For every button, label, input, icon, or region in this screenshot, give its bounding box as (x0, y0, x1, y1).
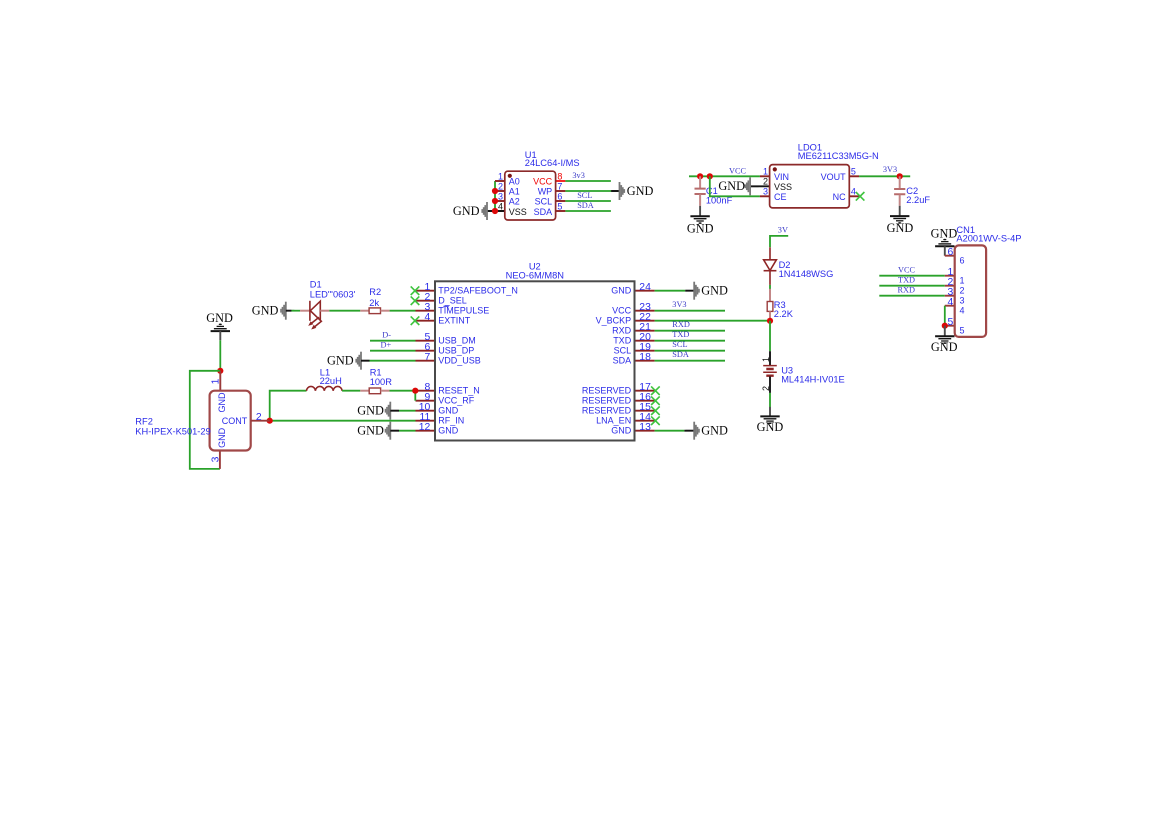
svg-text:18: 18 (639, 352, 651, 363)
svg-text:GND: GND (438, 406, 459, 416)
LED D1 triangle (310, 301, 320, 320)
svg-text:SDA: SDA (672, 350, 689, 359)
svg-text:SCL: SCL (577, 191, 592, 200)
wire U1 left vertical bus (pins 1-4) (494, 181, 496, 211)
svg-text:6: 6 (557, 191, 562, 201)
wire ground to junction black (219, 331, 221, 340)
svg-text:LED"'0603': LED"'0603' (310, 289, 356, 299)
pin U2.10 stub (416, 410, 436, 412)
wire RXD net (U2.21) (655, 330, 725, 332)
svg-text:RF2: RF2 (135, 416, 153, 426)
svg-text:VSS: VSS (509, 207, 527, 217)
capacitor C2 top lead (899, 176, 901, 188)
diode D2 anode lead (769, 247, 771, 259)
svg-text:GND: GND (611, 426, 632, 436)
resistor R1 left lead (360, 390, 369, 392)
svg-text:VCC: VCC (612, 306, 632, 316)
wire V_BCKP net (U2.22 to R3) (655, 320, 770, 322)
svg-text:RF_IN: RF_IN (438, 416, 464, 426)
svg-text:VCC: VCC (533, 177, 553, 187)
ground flag GND (U2.13) (686, 422, 699, 440)
wire RF2.2 to U2.11 (270, 420, 416, 422)
svg-text:RESERVED: RESERVED (582, 406, 632, 416)
pin U2.4 stub (416, 320, 436, 322)
capacitor C2 plates (894, 189, 905, 194)
wire R3 junction down to U3 (769, 321, 771, 351)
svg-text:TXD: TXD (898, 275, 915, 284)
svg-text:NC: NC (833, 192, 846, 202)
pin U1.5 stub (556, 210, 566, 212)
junction CN1.5 node (942, 323, 948, 329)
svg-text:CE: CE (774, 192, 787, 202)
wire U2.8 to U2.9 (414, 391, 416, 401)
pin U2.8 stub (416, 390, 436, 392)
pin U2.11 stub (416, 420, 436, 422)
connector RF2 body (210, 391, 251, 451)
svg-text:2k: 2k (369, 298, 379, 308)
pin U2.15 stub (635, 410, 655, 412)
svg-text:6: 6 (960, 256, 965, 266)
wire TXD net (CN1.2) (879, 285, 945, 287)
svg-text:SDA: SDA (534, 207, 553, 217)
svg-text:6: 6 (948, 247, 954, 258)
ground flag GND (LDO VSS) (745, 177, 758, 195)
inductor L1 (307, 386, 343, 390)
wire SDA net (565, 210, 611, 212)
svg-text:ML414H-IV01E: ML414H-IV01E (781, 375, 845, 385)
wire flag to D1 (286, 310, 292, 312)
svg-text:GND: GND (931, 340, 958, 354)
LED D1 anode lead (320, 310, 329, 312)
svg-text:2.2uF: 2.2uF (906, 195, 930, 205)
pin LDO1.4 stub (849, 195, 859, 197)
wire RF2 shield loop (190, 371, 221, 469)
resistor R1 right lead (381, 390, 390, 392)
svg-text:GND: GND (757, 420, 784, 434)
junction U1 pin2 (492, 188, 498, 194)
LED D1 cathode bar (309, 301, 311, 321)
svg-text:SDA: SDA (577, 201, 594, 210)
ground flag GND (U1 pin7) (611, 182, 624, 200)
wire U2.13 to GND flag (655, 430, 685, 432)
svg-text:VSS: VSS (774, 182, 792, 192)
capacitor C1 bottom lead (699, 195, 701, 206)
wire 3V net corner (770, 236, 788, 247)
pin CN1.6 stub (945, 255, 955, 257)
svg-text:5: 5 (851, 167, 856, 177)
ground symbol (C1) (690, 216, 709, 224)
pin U2.13 stub (635, 430, 655, 432)
svg-text:1: 1 (210, 378, 221, 384)
svg-text:1N4148WSG: 1N4148WSG (779, 269, 834, 279)
svg-text:13: 13 (639, 422, 651, 433)
connector CN1 body (955, 245, 986, 337)
resistor R3 body (767, 302, 773, 312)
svg-text:VIN: VIN (774, 172, 789, 182)
pin LDO1.5 stub (849, 175, 859, 177)
wire D- net (U2.5) (370, 340, 416, 342)
IC U2 body (435, 281, 635, 440)
svg-text:VDD_USB: VDD_USB (438, 356, 481, 366)
pin CN1.3 stub (945, 295, 955, 297)
wire C1 to ground (699, 206, 701, 216)
svg-text:3v3: 3v3 (572, 171, 584, 180)
pin CN1.1 stub (945, 275, 955, 277)
pin U2.1 stub (416, 290, 436, 292)
capacitor C1 top lead (699, 176, 701, 188)
wire flag to U2.12 green (399, 430, 416, 432)
no-connect X (U2 left pin) (411, 296, 420, 305)
svg-text:KH-IPEX-K501-29: KH-IPEX-K501-29 (135, 427, 210, 437)
svg-text:4: 4 (948, 297, 954, 308)
junction C1 tap (697, 173, 703, 179)
no-connect X (U2 right pin) (651, 396, 660, 405)
svg-text:5: 5 (557, 201, 562, 211)
svg-text:3: 3 (210, 456, 221, 462)
svg-text:GND: GND (931, 226, 958, 240)
svg-text:SCL: SCL (535, 197, 553, 207)
pin U2.22 stub (635, 320, 655, 322)
resistor R2 left lead (360, 310, 369, 312)
diode D2 cathode bar (764, 270, 777, 272)
svg-text:VCC_RF: VCC_RF (438, 396, 475, 406)
svg-text:2.2K: 2.2K (774, 309, 794, 319)
pin U2.17 stub (635, 390, 655, 392)
svg-text:3: 3 (960, 296, 965, 306)
svg-text:A2001WV-S-4P: A2001WV-S-4P (956, 233, 1021, 243)
svg-text:GND: GND (217, 427, 227, 448)
battery U3 pin2 stub (769, 377, 771, 393)
svg-text:NEO-6M/M8N: NEO-6M/M8N (506, 271, 564, 281)
pin U2.6 stub (416, 350, 436, 352)
pin LDO1.1 stub (760, 175, 770, 177)
pin U2.20 stub (635, 340, 655, 342)
svg-text:A1: A1 (509, 187, 520, 197)
wire to D1 cathode (291, 310, 300, 312)
svg-text:1: 1 (763, 167, 768, 177)
wire L1 left corner (to RF2 node) (270, 391, 307, 421)
svg-text:8: 8 (557, 171, 562, 181)
ground symbol (CN1.6, flipped) (935, 239, 954, 247)
pin CN1.4 stub (945, 305, 955, 307)
wire TXD net (U2.20) (655, 340, 725, 342)
ground symbol (C2) (890, 216, 909, 224)
pin CN1.5 stub (945, 325, 955, 327)
IC LDO1 body (770, 165, 850, 208)
pin U1.2 stub (495, 190, 505, 192)
svg-text:V_BCKP: V_BCKP (596, 316, 632, 326)
svg-text:24LC64-I/MS: 24LC64-I/MS (525, 158, 580, 168)
svg-text:GND: GND (718, 179, 745, 193)
svg-text:GND: GND (357, 404, 384, 418)
overline mark on TIMEPULSE (443, 305, 448, 307)
junction U1 pin3 (492, 198, 498, 204)
svg-text:1: 1 (498, 171, 503, 181)
battery U3 plates (763, 366, 777, 373)
pin U2.3 stub (416, 310, 436, 312)
diode D2 cathode lead (769, 271, 771, 285)
pin U1.6 stub (556, 200, 566, 202)
svg-text:TIMEPULSE: TIMEPULSE (438, 306, 489, 316)
pin U1.8 stub (VCC) (556, 180, 566, 182)
wire SCL net (565, 200, 611, 202)
resistor R3 bottom lead (769, 311, 771, 320)
wire VCC net (689, 175, 760, 177)
svg-text:RESERVED: RESERVED (582, 396, 632, 406)
junction RF2.1 node (217, 368, 223, 374)
wire ground to RF2.1 green (219, 340, 221, 371)
svg-text:GND: GND (887, 221, 914, 235)
wire R1 to U2.8 (390, 390, 416, 392)
svg-text:5: 5 (960, 326, 965, 336)
capacitor C1 plates (695, 189, 706, 194)
junction C2 tap (897, 173, 903, 179)
wire D2 to R3 (769, 285, 771, 289)
wire D+ net (U2.6) (370, 350, 416, 352)
svg-text:3V3: 3V3 (672, 300, 686, 309)
svg-text:TP2/SAFEBOOT_N: TP2/SAFEBOOT_N (438, 286, 518, 296)
svg-text:R2: R2 (369, 287, 381, 297)
U1 pin-1 orientation dot (508, 174, 512, 178)
svg-text:7: 7 (425, 352, 431, 363)
wire L1 to R1 (342, 390, 360, 392)
svg-text:2: 2 (256, 412, 262, 423)
svg-text:GND: GND (701, 424, 728, 438)
svg-text:RXD: RXD (898, 285, 916, 294)
svg-text:RESET_N: RESET_N (438, 386, 480, 396)
wire flag to U2.7 green (370, 360, 416, 362)
svg-text:3: 3 (763, 187, 768, 197)
ground flag GND (U2.12) (386, 422, 399, 440)
svg-text:4: 4 (498, 201, 503, 211)
wire GND flag to VSS (750, 185, 770, 187)
pin U1.7 stub (556, 190, 566, 192)
wire CN1.5 to ground (944, 326, 946, 336)
svg-text:22uH: 22uH (320, 376, 342, 386)
svg-text:EXTINT: EXTINT (438, 316, 471, 326)
wire U2.24 to GND flag (655, 290, 686, 292)
pin U2.16 stub (635, 400, 655, 402)
pin U2.9 stub (416, 400, 436, 402)
svg-text:TXD: TXD (672, 330, 689, 339)
svg-text:100R: 100R (370, 377, 393, 387)
svg-text:D+: D+ (381, 340, 392, 349)
pin U2.19 stub (635, 350, 655, 352)
svg-text:VCC: VCC (729, 166, 747, 175)
svg-text:GND: GND (438, 426, 459, 436)
svg-text:RESERVED: RESERVED (582, 386, 632, 396)
wire 3v3 net from U1.8 (565, 180, 611, 182)
pin RF2.3 stub (219, 451, 221, 469)
svg-text:GND: GND (252, 304, 279, 318)
svg-text:WP: WP (538, 187, 553, 197)
svg-text:LNA_EN: LNA_EN (596, 416, 631, 426)
wire black segment to flag (612, 190, 620, 192)
pin U2.24 stub (635, 290, 655, 292)
wire flag to U2.12 black (390, 430, 399, 432)
svg-text:3: 3 (498, 191, 503, 201)
wire U3 to ground (769, 393, 771, 407)
svg-text:D_SEL: D_SEL (438, 296, 467, 306)
battery U3 pin1 stub (769, 351, 771, 365)
svg-text:SCL: SCL (614, 346, 632, 356)
pin RF2.2 stub (251, 420, 270, 422)
svg-text:GND: GND (701, 284, 728, 298)
wire R2 to U2.3 (390, 310, 416, 312)
resistor R2 right lead (381, 310, 390, 312)
pin U2.21 stub (635, 330, 655, 332)
wire U1.7 to GND flag (565, 190, 611, 192)
svg-text:VOUT: VOUT (821, 172, 847, 182)
LED D1 cathode lead (300, 310, 310, 312)
pin U1.1 stub (495, 180, 505, 182)
wire 3V3 output (859, 175, 910, 177)
pin U2.12 stub (416, 430, 436, 432)
svg-text:3V: 3V (778, 226, 788, 235)
wire black segment to ground (769, 407, 771, 416)
svg-text:1: 1 (960, 276, 965, 286)
pin U2.14 stub (635, 420, 655, 422)
junction R3/V_BCKP (767, 318, 773, 324)
resistor R1 body (369, 388, 380, 394)
svg-text:7: 7 (557, 181, 562, 191)
wire RXD net (CN1.3) (879, 295, 945, 297)
diode D2 triangle (764, 260, 777, 271)
black segment to flag (U2.24) (685, 290, 694, 292)
svg-text:GND: GND (611, 286, 632, 296)
junction U1 pin4 (492, 208, 498, 214)
ground flag GND (U1 pin4) (482, 202, 495, 220)
svg-text:USB_DP: USB_DP (438, 346, 474, 356)
wire flag to U2.10 green (399, 410, 416, 412)
pin LDO1.3 stub (760, 195, 770, 197)
svg-text:12: 12 (419, 422, 431, 433)
pin U2.18 stub (635, 360, 655, 362)
svg-text:RXD: RXD (672, 320, 690, 329)
wire SDA net (U2.18) (655, 360, 725, 362)
ground flag GND (D1) (281, 302, 294, 320)
LED D1 emission arrow 1 (310, 317, 319, 324)
black segment to flag (U2.13) (684, 430, 694, 432)
svg-text:A0: A0 (509, 177, 520, 187)
ground symbol (RF2 top, flipped) (211, 324, 230, 332)
resistor R3 top lead (769, 289, 771, 302)
no-connect X (U2 left pin) (411, 286, 420, 295)
svg-text:4: 4 (851, 187, 856, 197)
svg-text:VCC: VCC (898, 265, 916, 274)
svg-text:2: 2 (498, 181, 503, 191)
ground flag GND (U2.7) (356, 352, 369, 370)
junction U2.8 node (412, 388, 418, 394)
wire C2 to ground (899, 206, 901, 216)
pin RF2.1 stub (219, 371, 221, 391)
svg-text:GND: GND (687, 222, 714, 236)
wire VCC net (CN1.1) (879, 275, 945, 277)
no-connect X (U2 right pin) (651, 386, 660, 395)
IC U1 body (505, 171, 556, 220)
wire D1 to R2 (329, 310, 360, 312)
svg-text:GND: GND (453, 204, 480, 218)
svg-text:CONT: CONT (222, 416, 248, 426)
no-connect X (U2 right pin) (651, 416, 660, 425)
svg-text:SDA: SDA (613, 356, 632, 366)
no-connect X (LDO NC) (856, 192, 865, 201)
wire SCL net (U2.19) (655, 350, 725, 352)
svg-text:5: 5 (948, 317, 954, 328)
svg-text:D1: D1 (310, 280, 322, 290)
capacitor C2 bottom lead (899, 195, 901, 206)
ground flag GND (U2.24) (686, 282, 699, 300)
pin CN1.2 stub (945, 285, 955, 287)
svg-text:TXD: TXD (613, 336, 632, 346)
wire GND to U1.4 (487, 210, 505, 212)
wire VCC 3V3 net (U2.23) (655, 310, 725, 312)
svg-text:2: 2 (761, 386, 771, 391)
pin U2.23 stub (635, 310, 655, 312)
pin U2.7 stub (416, 360, 436, 362)
svg-text:ME6211C33M5G-N: ME6211C33M5G-N (798, 151, 879, 161)
wire flag to U2.10 black (390, 410, 399, 412)
resistor R2 body (369, 308, 380, 314)
no-connect X (U2 left pin) (411, 316, 420, 325)
svg-text:GND: GND (357, 424, 384, 438)
pin U2.5 stub (416, 340, 436, 342)
junction CE tap (707, 173, 713, 179)
pin U2.2 stub (416, 300, 436, 302)
wire CN1.4 to CN1.5 (944, 306, 946, 326)
svg-text:USB_DM: USB_DM (438, 336, 476, 346)
wire flag to U2.7 black (361, 360, 370, 362)
svg-text:4: 4 (960, 306, 965, 316)
no-connect X (U2 right pin) (651, 406, 660, 415)
svg-text:GND: GND (327, 354, 354, 368)
svg-text:1: 1 (761, 357, 771, 362)
pin U1.3 stub (495, 200, 505, 202)
LED D1 emission arrow 2 (313, 321, 322, 328)
junction RF2.2 node (267, 418, 273, 424)
svg-text:D-: D- (382, 330, 391, 339)
svg-text:24: 24 (639, 282, 651, 293)
svg-text:GND: GND (217, 392, 227, 413)
svg-text:GND: GND (206, 311, 233, 325)
LDO1 pin-1 orientation dot (773, 167, 777, 171)
svg-text:2: 2 (763, 177, 768, 187)
svg-text:GND: GND (627, 184, 654, 198)
svg-text:A2: A2 (509, 197, 520, 207)
ground symbol (CN1 bottom) (935, 336, 954, 344)
ground symbol (U3) (760, 416, 779, 424)
svg-text:4: 4 (425, 312, 431, 323)
svg-text:2: 2 (960, 286, 965, 296)
svg-text:3V3: 3V3 (883, 165, 897, 174)
wire CE connection (710, 176, 760, 196)
wire ground to CN1.6 (944, 246, 946, 255)
ground flag GND (U2.10) (386, 402, 399, 420)
svg-text:RXD: RXD (612, 326, 632, 336)
svg-text:SCL: SCL (672, 340, 687, 349)
